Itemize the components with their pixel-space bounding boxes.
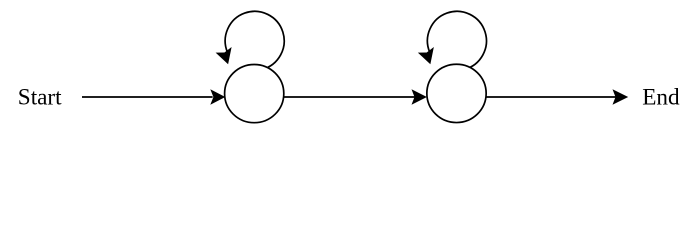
Start arrowhead into q1 [210,89,225,105]
arrowhead toward End [613,89,629,105]
svg-text:End: End [642,85,680,111]
arrowhead into q2 [412,89,427,105]
self-loop arrowhead on state q1 [216,47,232,64]
self-loop arc on state q2 [427,11,486,69]
wire: q2 to End arrow shaft [486,96,616,98]
svg-text:Start: Start [18,84,62,110]
self-loop arc on state q1 [225,11,284,69]
state circle q2 [427,64,486,122]
state circle q1 [225,65,284,123]
wire: Start arrow shaft [82,96,213,98]
wire: q1 to q2 arrow shaft [284,96,415,98]
self-loop arrowhead on state q2 [418,47,434,64]
